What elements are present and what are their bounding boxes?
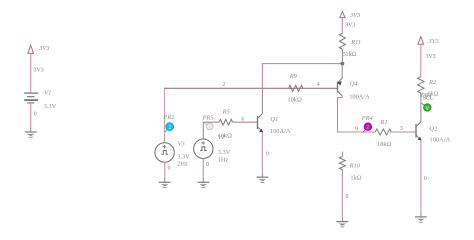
wire feedback (Q1 collector to R11 bottom junction) <box>262 64 342 114</box>
svg-text:PR2: PR2 <box>162 114 175 121</box>
svg-text:3.3V: 3.3V <box>218 149 231 156</box>
svg-text:3: 3 <box>400 126 403 132</box>
transistor Q4 (PNP) <box>338 64 371 101</box>
wire net (V2 to R5) <box>203 122 219 139</box>
svg-text:0: 0 <box>346 194 349 200</box>
resistor R2 <box>418 77 439 98</box>
svg-text:3V3: 3V3 <box>38 45 49 52</box>
svg-text:3.3V: 3.3V <box>44 103 57 110</box>
probe PR1 <box>420 92 434 112</box>
svg-text:Q2: Q2 <box>429 125 438 132</box>
ground (Q1) <box>257 177 269 182</box>
svg-text:5: 5 <box>343 52 346 58</box>
wire net 2 (corner to Q4 base) <box>164 82 338 143</box>
svg-text:0: 0 <box>168 166 171 172</box>
svg-text:3V3: 3V3 <box>428 38 439 45</box>
svg-text:1kΩ: 1kΩ <box>345 51 356 58</box>
wire net 0 (V3 bottom) <box>165 162 171 182</box>
wire net 0 (Q1 emitter) <box>262 132 269 177</box>
ground (V2) <box>197 182 209 187</box>
svg-text:1: 1 <box>168 125 171 131</box>
svg-text:0: 0 <box>206 162 209 168</box>
svg-text:100A/A: 100A/A <box>430 136 451 143</box>
probe PR2 <box>162 114 175 132</box>
ground (V3) <box>159 182 171 187</box>
wire net 3V3 (R2 top) <box>421 45 436 77</box>
svg-text:V3: V3 <box>178 141 185 148</box>
svg-text:Q4: Q4 <box>350 81 359 88</box>
svg-text:10kΩ: 10kΩ <box>287 96 302 103</box>
svg-text:PR5: PR5 <box>202 115 214 122</box>
svg-text:0: 0 <box>266 152 269 158</box>
node junction (R11/Q4) <box>341 62 345 66</box>
resistor R10 <box>339 152 361 182</box>
svg-text:3V3: 3V3 <box>426 54 436 60</box>
svg-text:PR4: PR4 <box>361 115 374 122</box>
svg-text:R1: R1 <box>380 119 388 126</box>
battery V1 <box>24 89 56 110</box>
svg-text:SCL: SCL <box>423 96 434 102</box>
probe PR4 <box>361 115 374 132</box>
resistor R9 <box>287 73 303 103</box>
svg-text:R5: R5 <box>222 108 230 115</box>
svg-text:0: 0 <box>34 112 37 118</box>
wire net 9 (Q4 collector to R1) <box>338 96 376 132</box>
svg-text:R11: R11 <box>350 39 361 46</box>
svg-text:2: 2 <box>222 82 225 88</box>
svg-text:R2: R2 <box>428 79 437 86</box>
svg-text:V1: V1 <box>44 89 51 96</box>
svg-text:2Hz: 2Hz <box>177 160 188 167</box>
ground (Q2) <box>415 217 427 222</box>
svg-text:1kΩ: 1kΩ <box>350 175 361 182</box>
svg-text:3V3: 3V3 <box>349 12 360 19</box>
svg-text:Q1: Q1 <box>270 116 278 123</box>
wire net 0 (Q2 emitter) <box>421 140 427 217</box>
svg-text:18kΩ: 18kΩ <box>377 141 392 148</box>
wire net 0 (V1 bottom) <box>31 103 37 132</box>
svg-text:6: 6 <box>241 117 244 123</box>
svg-text:9: 9 <box>355 126 358 132</box>
resistor R1 <box>375 119 391 148</box>
svg-text:3.3V: 3.3V <box>177 153 190 160</box>
svg-text:3V3: 3V3 <box>345 23 355 29</box>
probe PR5 <box>202 115 214 130</box>
power symbol 3V3 (V1 column) <box>28 45 50 54</box>
svg-text:V2: V2 <box>218 134 226 141</box>
source V3 <box>155 141 190 168</box>
svg-text:4: 4 <box>317 82 320 88</box>
source V2 <box>194 134 231 164</box>
svg-text:0: 0 <box>424 176 427 182</box>
power symbol 3V3 (R2 column) <box>418 37 439 45</box>
svg-text:1Hz: 1Hz <box>218 157 229 164</box>
ground (R10) <box>337 222 349 227</box>
ground (V1) <box>25 132 37 137</box>
wire net 3V3 (V1 top) <box>31 54 44 93</box>
svg-text:100A/A: 100A/A <box>270 128 291 135</box>
wire net 0 (V2 bottom) <box>203 158 209 182</box>
wire net 0 (R10 bottom) <box>342 174 348 222</box>
svg-text:2: 2 <box>366 125 369 131</box>
svg-text:100A/A: 100A/A <box>349 93 370 100</box>
svg-text:R10: R10 <box>349 162 361 169</box>
power symbol 3V3 (R11 column) <box>340 11 360 19</box>
resistor R11 <box>339 33 361 62</box>
resistor R5 <box>218 108 233 139</box>
wire net 3V3 (R11 top) <box>342 18 355 33</box>
svg-text:3V3: 3V3 <box>34 68 44 74</box>
wire net 3 (R1 to Q2 base) <box>390 126 416 132</box>
svg-text:R9: R9 <box>289 73 298 80</box>
transistor Q1 <box>258 114 291 136</box>
transistor Q2 <box>416 97 450 143</box>
svg-text:V: V <box>425 106 429 112</box>
wire net 6 (R5 to Q1 base) <box>233 117 258 123</box>
